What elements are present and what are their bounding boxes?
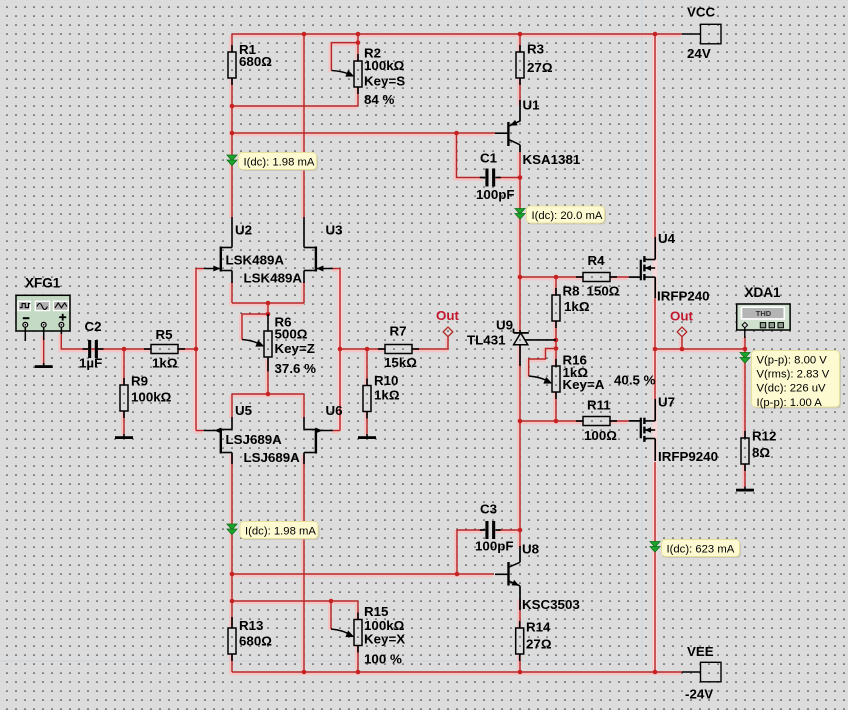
svg-text:VCC: VCC [687,5,716,20]
svg-text:8Ω: 8Ω [752,445,770,460]
svg-text:V(dc): 226 uV: V(dc): 226 uV [757,383,827,395]
svg-text:Key=X: Key=X [364,632,405,647]
svg-text:I(dc): 20.0 mA: I(dc): 20.0 mA [532,210,603,222]
svg-text:IRFP240: IRFP240 [657,289,710,304]
svg-text:100kΩ: 100kΩ [131,390,172,405]
svg-text:100pF: 100pF [476,187,515,202]
svg-text:R14: R14 [526,620,551,635]
svg-text:100Ω: 100Ω [584,428,617,443]
svg-text:I(dc): 623 mA: I(dc): 623 mA [667,544,735,556]
svg-text:LSJ689A: LSJ689A [226,432,283,447]
svg-text:-24V: -24V [685,687,713,702]
svg-text:LSK489A: LSK489A [226,253,285,268]
svg-text:I(dc): 1.98 mA: I(dc): 1.98 mA [244,157,315,169]
svg-text:100 %: 100 % [364,652,402,667]
svg-text:R11: R11 [587,398,611,413]
svg-text:U9: U9 [496,318,513,333]
svg-text:100pF: 100pF [475,539,514,554]
svg-text:24V: 24V [687,46,711,61]
svg-text:V(rms): 2.83 V: V(rms): 2.83 V [757,369,830,381]
svg-text:27Ω: 27Ω [526,637,552,652]
svg-text:Key=S: Key=S [364,74,405,89]
svg-text:IRFP9240: IRFP9240 [658,449,718,464]
svg-text:37.6 %: 37.6 % [275,361,317,376]
svg-text:U1: U1 [523,98,541,113]
svg-text:Key=A: Key=A [563,377,605,392]
svg-text:Out: Out [670,309,694,324]
svg-text:R3: R3 [527,42,544,57]
svg-text:Key=Z: Key=Z [275,341,315,356]
svg-text:R10: R10 [374,373,398,388]
svg-text:1µF: 1µF [79,356,102,371]
svg-text:U3: U3 [326,223,343,238]
svg-text:XFG1: XFG1 [25,276,61,291]
svg-text:I(p-p): 1.00 A: I(p-p): 1.00 A [757,397,823,409]
svg-text:THD: THD [756,309,772,318]
svg-text:150Ω: 150Ω [587,284,620,299]
svg-text:1kΩ: 1kΩ [152,356,178,371]
svg-text:R12: R12 [752,429,776,444]
svg-text:27Ω: 27Ω [527,60,553,75]
svg-text:V(p-p): 8.00 V: V(p-p): 8.00 V [757,355,828,367]
svg-text:KSA1381: KSA1381 [523,152,581,167]
svg-text:U8: U8 [522,542,539,557]
svg-text:U7: U7 [658,395,675,410]
svg-text:XDA1: XDA1 [745,285,782,300]
svg-text:LSK489A: LSK489A [244,271,303,286]
svg-text:R5: R5 [156,327,174,342]
svg-text:R9: R9 [131,374,148,389]
svg-text:R4: R4 [588,253,606,268]
svg-text:1kΩ: 1kΩ [374,388,400,403]
svg-text:U2: U2 [235,223,252,238]
svg-text:VEE: VEE [687,644,714,659]
svg-text:U4: U4 [658,231,676,246]
svg-text:I(dc): 1.98 mA: I(dc): 1.98 mA [245,526,316,538]
svg-text:Out: Out [436,308,460,323]
svg-text:TL431: TL431 [467,333,506,348]
svg-text:84 %: 84 % [364,92,395,107]
svg-text:1kΩ: 1kΩ [564,299,590,314]
svg-text:KSC3503: KSC3503 [522,597,580,612]
svg-text:C1: C1 [480,151,498,166]
svg-text:C3: C3 [480,502,497,517]
svg-text:C2: C2 [85,319,102,334]
svg-text:R15: R15 [364,604,389,619]
svg-text:40.5 %: 40.5 % [614,373,656,388]
svg-text:U5: U5 [235,403,253,418]
svg-text:100kΩ: 100kΩ [364,58,405,73]
svg-text:LSJ689A: LSJ689A [244,450,301,465]
svg-text:680Ω: 680Ω [239,634,272,649]
svg-text:R7: R7 [390,324,407,339]
svg-text:680Ω: 680Ω [239,54,272,69]
svg-text:R8: R8 [563,284,580,299]
svg-text:R13: R13 [239,618,263,633]
svg-text:15kΩ: 15kΩ [384,355,417,370]
svg-text:U6: U6 [326,403,343,418]
svg-text:500Ω: 500Ω [275,327,308,342]
